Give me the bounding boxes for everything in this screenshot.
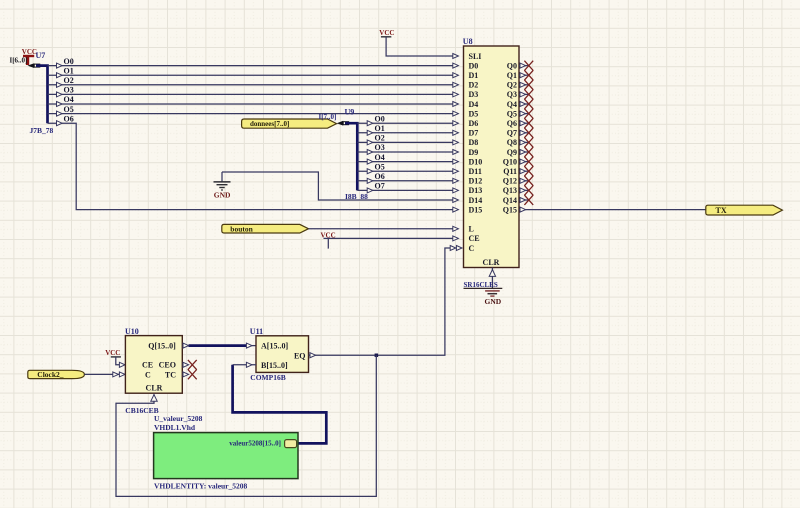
svg-text:Q0: Q0 — [507, 61, 517, 70]
wire Clock2 to U10.C — [84, 372, 125, 377]
component U8 SR16CLES box — [463, 37, 519, 268]
svg-text:VHDL1.Vhd: VHDL1.Vhd — [154, 423, 196, 432]
svg-text:O5: O5 — [375, 162, 385, 171]
no-connect X on U8.Q10 — [519, 157, 533, 167]
svg-text:Q1: Q1 — [507, 71, 517, 80]
svg-text:donnees[7..0]: donnees[7..0] — [250, 120, 289, 128]
svg-text:O0: O0 — [64, 57, 74, 66]
wire U9.O2 to U8.D8 — [357, 140, 458, 145]
no-connect X on U8.Q6 — [519, 118, 533, 128]
svg-text:VCC: VCC — [379, 29, 394, 37]
no-connect X on U8.Q1 — [519, 70, 533, 80]
svg-text:Q15: Q15 — [503, 205, 517, 214]
wire U9.O5 to U8.D11 — [357, 169, 458, 174]
svg-text:U11: U11 — [250, 327, 263, 336]
component U7 J7B_78 bus spine — [36, 66, 48, 124]
component U9 I8B_88 bus spine — [345, 123, 357, 190]
no-connect X on U8.Q4 — [519, 99, 533, 109]
wire U10.CLR loop from EQ junction — [116, 355, 376, 496]
svg-text:U10: U10 — [125, 327, 139, 336]
svg-text:Q5: Q5 — [507, 109, 517, 118]
svg-text:O3: O3 — [375, 143, 385, 152]
wire VCC to U10.CE — [116, 357, 126, 367]
svg-text:COMP16B: COMP16B — [250, 373, 285, 382]
wire bouton to U8.L — [309, 226, 459, 231]
svg-text:SLI: SLI — [469, 52, 482, 61]
svg-text:D3: D3 — [469, 90, 479, 99]
svg-text:Q2: Q2 — [507, 81, 517, 90]
component U10 CB16CEB box — [125, 327, 182, 393]
svg-text:I[7..0]: I[7..0] — [319, 113, 337, 121]
svg-text:Q8: Q8 — [507, 138, 517, 147]
svg-text:O4: O4 — [375, 153, 385, 162]
no-connect X on U8.Q0 — [519, 61, 533, 71]
svg-text:O2: O2 — [375, 134, 385, 143]
svg-text:CLR: CLR — [146, 384, 163, 393]
wire U9.O0 to U8.D6 — [357, 121, 458, 126]
VHDL entity block valeur_5208 — [154, 433, 298, 479]
wire U7.O0 to U8.D0 — [48, 63, 459, 68]
svg-text:Q[15..0]: Q[15..0] — [148, 341, 176, 350]
svg-text:Q6: Q6 — [507, 119, 517, 128]
no-connect X on U8.Q8 — [519, 138, 533, 148]
svg-text:O3: O3 — [64, 86, 74, 95]
wire U8.Q15 to port TX — [519, 207, 706, 212]
svg-text:L: L — [469, 225, 474, 234]
svg-text:A[15..0]: A[15..0] — [261, 342, 288, 351]
bus U10.Q[15..0] to U11.A[15..0] — [182, 343, 256, 348]
svg-text:Q12: Q12 — [503, 177, 517, 186]
svg-text:C: C — [469, 244, 475, 253]
svg-text:C: C — [145, 370, 151, 379]
svg-text:Q9: Q9 — [507, 148, 517, 157]
svg-text:CLR: CLR — [483, 258, 500, 267]
U11 pin labels — [261, 342, 306, 370]
svg-text:D10: D10 — [469, 157, 483, 166]
svg-text:B[15..0]: B[15..0] — [261, 361, 288, 370]
port Clock2_ — [28, 370, 85, 379]
svg-text:D5: D5 — [469, 109, 479, 118]
wire VCC to U8.CE — [324, 236, 459, 241]
bus valeur5208 to U11.B[15..0] — [233, 362, 327, 443]
wire U7.O2 to U8.D2 — [48, 82, 459, 87]
svg-text:U_valeur_5208: U_valeur_5208 — [154, 414, 203, 423]
port TX — [706, 205, 783, 215]
svg-text:D15: D15 — [469, 205, 483, 214]
U8 pin labels left — [469, 52, 483, 253]
wire U8.CLR to GND — [489, 268, 495, 289]
svg-text:Q3: Q3 — [507, 90, 517, 99]
svg-text:O5: O5 — [64, 105, 74, 114]
svg-text:TX: TX — [716, 206, 727, 215]
power port VCC net of U7 input — [22, 48, 37, 65]
power port VCC feeding U8.CE — [321, 232, 336, 249]
svg-text:D8: D8 — [469, 138, 479, 147]
label SR16CLES — [464, 281, 498, 289]
wire U7.O6 to U8.D15 — [48, 121, 459, 212]
svg-text:Q7: Q7 — [507, 129, 517, 138]
svg-text:O6: O6 — [64, 114, 74, 123]
component U11 COMP16B box — [250, 327, 309, 372]
svg-text:U7: U7 — [36, 51, 46, 60]
wire U7.O3 to U8.D3 — [48, 92, 459, 97]
wire VCC to U8.SLI — [386, 37, 458, 59]
junction node on EQ wire — [375, 354, 379, 358]
svg-text:Q11: Q11 — [503, 167, 517, 176]
svg-text:CEO: CEO — [159, 361, 176, 370]
svg-text:I[6..0]: I[6..0] — [10, 57, 28, 65]
no-connect X on U8.Q11 — [519, 166, 533, 176]
svg-text:Clock2_: Clock2_ — [37, 370, 64, 379]
svg-text:O2: O2 — [64, 76, 74, 85]
no-connect X on U8.Q9 — [519, 147, 533, 157]
port bouton — [222, 224, 309, 233]
wire U7.O4 to U8.D4 — [48, 102, 459, 107]
power port VCC feeding U10.CE — [105, 349, 121, 357]
svg-text:O7: O7 — [375, 182, 385, 191]
svg-text:D13: D13 — [469, 186, 483, 195]
svg-text:GND: GND — [485, 297, 502, 306]
bus pin valeur5208[15..0] — [229, 440, 296, 448]
no-connect X on U8.Q5 — [519, 109, 533, 119]
svg-text:Q10: Q10 — [503, 157, 517, 166]
bus entry arrow U9 — [337, 121, 349, 126]
power port VCC feeding U8.SLI — [379, 29, 394, 37]
svg-text:Q13: Q13 — [503, 186, 517, 195]
svg-text:TC: TC — [165, 370, 176, 379]
svg-text:VCC: VCC — [105, 349, 120, 357]
port donnees[7..0] — [242, 119, 337, 128]
wire U7.O5 to U8.D5 — [48, 111, 459, 116]
no-connect X on U10.CEO — [182, 360, 196, 370]
wire U7.O1 to U8.D1 — [48, 73, 459, 78]
ground symbol GND1 — [214, 172, 232, 199]
no-connect X on U8.Q2 — [519, 80, 533, 90]
svg-text:CE: CE — [469, 234, 480, 243]
svg-text:O6: O6 — [375, 172, 385, 181]
svg-text:Q4: Q4 — [507, 100, 517, 109]
wire U9.O6 to U8.D12 — [357, 178, 458, 183]
svg-text:U9: U9 — [345, 107, 355, 116]
svg-text:D2: D2 — [469, 81, 479, 90]
ground symbol GND2 — [464, 288, 503, 305]
wire U9.O4 to U8.D10 — [357, 159, 458, 164]
wire U11.EQ to U8.C — [316, 246, 462, 356]
U10 pin labels — [142, 341, 176, 392]
svg-text:EQ: EQ — [294, 352, 306, 361]
no-connect X on U8.Q13 — [519, 186, 533, 196]
svg-text:J7B_78: J7B_78 — [30, 126, 54, 135]
wire GND to U8.D14 — [222, 172, 458, 203]
no-connect X on U10.TC — [182, 370, 196, 380]
svg-text:U8: U8 — [463, 37, 473, 46]
wire U9.O7 to U8.D13 — [357, 188, 458, 193]
svg-text:D11: D11 — [469, 167, 482, 176]
wire U9.O3 to U8.D9 — [357, 150, 458, 155]
svg-text:D4: D4 — [469, 100, 479, 109]
svg-text:Q14: Q14 — [503, 196, 517, 205]
svg-text:VHDLENTITY: valeur_5208: VHDLENTITY: valeur_5208 — [154, 481, 248, 490]
svg-text:D0: D0 — [469, 61, 479, 70]
svg-text:D6: D6 — [469, 119, 479, 128]
svg-text:D12: D12 — [469, 177, 483, 186]
svg-text:bouton: bouton — [230, 225, 253, 234]
svg-text:O4: O4 — [64, 95, 74, 104]
bus entry arrow U7 — [28, 63, 40, 68]
svg-text:D7: D7 — [469, 129, 479, 138]
svg-text:D14: D14 — [469, 196, 483, 205]
svg-text:O1: O1 — [64, 66, 74, 75]
no-connect X on U8.Q3 — [519, 90, 533, 100]
svg-text:O0: O0 — [375, 114, 385, 123]
svg-text:GND: GND — [214, 190, 231, 199]
no-connect X on U8.Q7 — [519, 128, 533, 138]
wire U9.O1 to U8.D7 — [357, 130, 458, 135]
svg-text:D9: D9 — [469, 148, 479, 157]
no-connect X on U8.Q14 — [519, 195, 533, 205]
svg-text:CE: CE — [142, 361, 153, 370]
svg-text:O1: O1 — [375, 124, 385, 133]
svg-text:valeur5208[15..0]: valeur5208[15..0] — [229, 440, 281, 448]
no-connect X on U8.Q12 — [519, 176, 533, 186]
U11.EQ pin stub — [309, 353, 317, 358]
U8 pin labels right Q0-Q15 — [503, 61, 517, 214]
svg-text:D1: D1 — [469, 71, 479, 80]
